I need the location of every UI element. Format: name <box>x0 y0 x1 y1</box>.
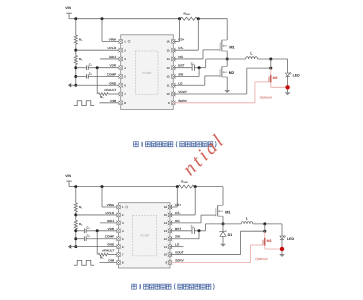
junction LED return (red, fig1) <box>285 85 289 89</box>
svg-text:UVLO: UVLO <box>107 46 116 50</box>
transistor M3 shunt (fig2) <box>251 238 272 246</box>
wire GND (fig2) <box>76 246 119 248</box>
svg-text:13: 13 <box>166 66 170 70</box>
svg-text:M1: M1 <box>229 45 234 49</box>
wire UVLO (fig2) <box>76 214 119 216</box>
wire IADJ stub (fig1) <box>100 58 121 60</box>
svg-text:IADJ: IADJ <box>109 55 116 59</box>
wire M3 drain branch (fig1) <box>270 59 272 75</box>
svg-text:GND: GND <box>107 243 115 247</box>
wire DIM (fig1) <box>100 102 121 104</box>
U1 pin 1 (VINA) pad <box>109 37 127 43</box>
junction C2 rail (fig2) <box>74 237 77 240</box>
wire M1 source to SW node (fig2) <box>222 216 224 224</box>
svg-text:C1: C1 <box>87 226 90 231</box>
svg-text:10: 10 <box>164 253 168 257</box>
svg-text:12: 12 <box>164 237 168 241</box>
U2 pin 3 (IADJ) pad <box>107 219 124 225</box>
svg-text:SW: SW <box>175 235 180 239</box>
svg-text:10: 10 <box>166 92 170 96</box>
svg-text:16: 16 <box>164 205 168 209</box>
transistor M1 (fig2) <box>201 205 230 216</box>
U1 pin 6 (GND) pad <box>109 81 126 87</box>
svg-text:15: 15 <box>166 48 170 52</box>
U1 pin 7 (nFAULT) pad <box>104 88 126 97</box>
inductor L (fig1) <box>246 51 258 59</box>
wire CS+ (fig1) <box>173 19 179 42</box>
svg-text:VINA: VINA <box>107 203 115 207</box>
junction C1 rail (fig2) <box>74 229 77 232</box>
svg-text:DIM: DIM <box>110 99 116 103</box>
svg-text:HG: HG <box>175 219 180 223</box>
svg-text:M2: M2 <box>229 71 234 75</box>
wire input rail (fig2) <box>75 187 77 247</box>
svg-text:VINA: VINA <box>109 37 117 41</box>
svg-text:CS-: CS- <box>175 211 180 215</box>
U2 pin 14 (HG) pad <box>164 219 180 225</box>
svg-text:VDR: VDR <box>110 64 117 68</box>
wire M1 drain (fig2) <box>222 187 224 206</box>
svg-text:VOUT: VOUT <box>178 90 187 94</box>
svg-text:PGND: PGND <box>142 71 152 75</box>
svg-text:HG: HG <box>178 55 183 59</box>
wire R3 pullup vertical (fig1) <box>96 68 98 94</box>
svg-text:DIM: DIM <box>108 259 114 263</box>
wire LED return to ground (fig1) <box>287 90 289 93</box>
svg-text:16: 16 <box>166 40 170 44</box>
wire LED anode (fig2) <box>281 224 283 236</box>
svg-text:Optional: Optional <box>260 96 273 100</box>
resistor RSNS (fig1) <box>181 12 197 21</box>
junction L output (fig1) <box>269 58 272 61</box>
U2 pin 8 (DIM) pad <box>108 259 124 265</box>
U1 pin 5 (COMP) pad <box>107 72 126 78</box>
wire M2 source to ground (fig1) <box>226 77 228 90</box>
U1 pin 14 (HG) pad <box>166 55 183 61</box>
svg-text:R1: R1 <box>79 37 83 42</box>
junction BST/SW (fig1) <box>198 66 201 69</box>
junction SW node (fig1) <box>226 58 229 61</box>
svg-text:15: 15 <box>164 213 168 217</box>
wire BST to SW net (fig2) <box>194 224 206 231</box>
svg-text:LED: LED <box>293 74 300 78</box>
svg-text:IADJ: IADJ <box>107 219 114 223</box>
resistor R1 (fig1) <box>74 35 83 44</box>
node VIN (fig1) <box>65 6 76 19</box>
junction L output (fig2) <box>263 222 266 225</box>
wire VIN bus (fig1) <box>76 18 227 20</box>
resistor RSNS (fig2) <box>179 179 195 188</box>
ground (left, fig1) <box>68 83 76 87</box>
wire R3 pullup vertical (fig2) <box>96 231 98 255</box>
wire CS- (fig1) <box>173 19 198 50</box>
junction UVLO divider (fig2) <box>74 213 77 216</box>
svg-text:13: 13 <box>164 229 168 233</box>
U2 pin 15 (CS-) pad <box>164 211 181 217</box>
junction GND rail (fig1) <box>74 84 77 87</box>
svg-text:UVLO: UVLO <box>105 211 114 215</box>
wire LED cathode (fig2) <box>281 240 283 249</box>
U1 pin 16 (CS+) pad <box>166 37 184 43</box>
U1 pin 4 (VDR) pad <box>110 64 127 70</box>
svg-text:LED: LED <box>287 237 294 241</box>
U1 pin 8 (DIM) pad <box>110 99 126 105</box>
svg-text:R2: R2 <box>79 57 83 62</box>
U2 pin 4 (VDR) pad <box>108 227 124 233</box>
wire nFAULT (fig2) <box>108 254 118 256</box>
svg-text:14: 14 <box>166 57 170 61</box>
junction VINA tap (fig1) <box>101 17 104 20</box>
svg-text:COMP: COMP <box>107 72 116 76</box>
junction LED return (red, fig2) <box>280 247 284 251</box>
transistor M2 (fig1) <box>205 59 234 77</box>
svg-text:CS+: CS+ <box>175 203 181 207</box>
U2 pin 10 (VOUT) pad <box>164 251 184 257</box>
junction SW node (fig2) <box>222 222 225 225</box>
resistor R3 (fig1) <box>98 93 108 100</box>
svg-text:BST: BST <box>178 64 184 68</box>
wire D1 anode to ground (fig2) <box>222 236 224 243</box>
svg-text:BST: BST <box>175 227 181 231</box>
U1 pin 12 (SW) pad <box>166 72 183 78</box>
wire LED return to ground (fig2) <box>281 251 283 254</box>
U2 pin 7 (nFAULT) pad <box>102 248 124 257</box>
svg-text:11: 11 <box>164 245 167 249</box>
wire UVLO (fig1) <box>76 49 121 51</box>
wire VOUT (fig1) <box>173 68 270 94</box>
wire HG gate (fig1) <box>173 50 203 59</box>
svg-text:SW: SW <box>178 72 183 76</box>
junction VDR / R3 pullup (fig1) <box>96 66 99 69</box>
wire COMP (fig1) <box>89 75 121 77</box>
svg-text:L: L <box>246 216 249 220</box>
resistor R1 (fig2) <box>74 203 83 212</box>
svg-text:C2: C2 <box>89 71 92 76</box>
U1 pin 3 (IADJ) pad <box>109 55 126 61</box>
U1 pin 10 (VOUT) pad <box>166 90 187 96</box>
caption figure 2 (图2 应用原理图 异步整流架构) <box>132 284 214 290</box>
wire GND (fig1) <box>76 84 121 86</box>
wire VOUT (fig2) <box>170 231 265 254</box>
wire DIM (fig2) <box>100 262 119 264</box>
svg-text:RSNS: RSNS <box>181 179 188 184</box>
svg-text:C2: C2 <box>87 234 90 239</box>
svg-text:LG: LG <box>178 81 183 85</box>
junction RSNS left / CS+ (fig1) <box>178 17 181 20</box>
svg-text:ntial: ntial <box>179 129 230 180</box>
wire nFAULT (fig1) <box>108 93 120 95</box>
wire M3 drain branch (fig2) <box>264 224 266 238</box>
wire M3 source to LED return (fig2) <box>265 245 282 249</box>
wire LED cathode (fig1) <box>287 77 289 88</box>
U2 pin 13 (BST) pad <box>164 227 181 233</box>
LED (fig2) <box>280 235 295 241</box>
wire M1 source to SW node (fig1) <box>226 51 228 59</box>
junction RSNS left / CS+ (fig2) <box>176 185 179 188</box>
svg-text:R3: R3 <box>100 95 104 100</box>
wire M1 drain (fig1) <box>226 19 228 40</box>
junction VIN rail (fig2) <box>74 185 77 188</box>
svg-text:M1: M1 <box>225 211 230 215</box>
wire IADJ stub (fig2) <box>100 222 119 224</box>
capacitor C3 (fig2) <box>170 224 194 234</box>
U1 pin 11 (LG) pad <box>167 81 183 87</box>
PWM dimming signal icon (fig1) <box>74 101 94 106</box>
ground (left, fig2) <box>68 244 76 248</box>
U2 pin 1 (VINA) pad <box>107 203 124 209</box>
junction RSNS right / CS- (fig1) <box>197 17 200 20</box>
svg-text:C3: C3 <box>191 224 194 229</box>
svg-text:C3: C3 <box>191 61 194 66</box>
ground LED (fig1) <box>285 92 291 95</box>
diode D1 schottky (fig2) <box>220 224 232 237</box>
junction C1 rail (fig1) <box>74 66 77 69</box>
U2 pin 2 (UVLO) pad <box>105 211 124 217</box>
wire CS+ (fig2) <box>170 187 177 207</box>
wire VIN bus (fig2) <box>76 186 223 188</box>
capacitor C3 (fig1) <box>173 61 194 71</box>
resistor R2 (fig1) <box>74 55 83 64</box>
transistor M3 shunt (fig1) <box>255 75 278 83</box>
svg-text:R1: R1 <box>79 205 83 210</box>
svg-text:RSNS: RSNS <box>184 12 191 17</box>
IC U2 body <box>119 203 171 268</box>
resistor R2 (fig2) <box>74 220 83 229</box>
svg-text:CS-: CS- <box>178 46 183 50</box>
U2 pin 6 (GND) pad <box>107 243 124 249</box>
U2 pin 16 (CS+) pad <box>164 203 181 209</box>
U2 pin 5 (COMP) pad <box>105 235 124 241</box>
wire SDRV to M3 gate (fig1) <box>173 82 255 103</box>
svg-text:SDRV: SDRV <box>178 99 188 103</box>
svg-text:R3: R3 <box>100 255 104 260</box>
svg-text:R2: R2 <box>79 222 83 227</box>
U2 pin 9 (SDRV) pad <box>165 259 184 265</box>
wire LG gate (fig1) <box>173 76 205 85</box>
wire input rail (fig1) <box>75 19 77 86</box>
ground D1 (fig2) <box>220 244 226 247</box>
wire VDR (fig1) <box>89 67 121 69</box>
wire LED anode (fig1) <box>287 59 289 73</box>
svg-text:M3: M3 <box>273 76 278 80</box>
svg-text:SDRV: SDRV <box>175 259 185 263</box>
junction VIN rail (fig1) <box>74 17 77 20</box>
svg-text:nFAULT: nFAULT <box>102 248 114 252</box>
IC U1 body <box>121 35 174 110</box>
svg-text:Optional: Optional <box>255 257 268 261</box>
wire VINA (fig2) <box>102 187 119 207</box>
capacitor C2 (fig2) <box>76 234 90 242</box>
wire CS- (fig2) <box>170 187 195 215</box>
svg-text:PGND: PGND <box>140 234 150 238</box>
svg-text:COMP: COMP <box>105 235 114 239</box>
U1 pin 2 (UVLO) pad <box>107 46 126 52</box>
junction C2 rail (fig1) <box>74 75 77 78</box>
junction VOUT / M3 drain (fig2) <box>263 230 266 233</box>
capacitor C1 (fig2) <box>76 226 90 234</box>
svg-text:M3: M3 <box>267 239 272 243</box>
caption figure 1 (图1 应用原理图 同步整流架构) <box>134 141 216 147</box>
svg-text:VIN: VIN <box>65 6 71 10</box>
wire SDRV to M3 gate (fig2) <box>170 245 251 263</box>
U2 pin 12 (SW) pad <box>164 235 180 241</box>
ground LED (fig2) <box>279 254 285 257</box>
node VIN (fig2) <box>65 174 76 187</box>
junction UVLO divider (fig1) <box>74 49 77 52</box>
junction RSNS right / CS- (fig2) <box>194 185 197 188</box>
junction BST/SW (fig2) <box>198 229 201 232</box>
junction VINA tap (fig2) <box>101 185 104 188</box>
PWM dimming signal icon (fig2) <box>74 260 94 265</box>
inductor L (fig2) <box>241 216 253 224</box>
wire SW node line (fig2) <box>206 223 283 225</box>
wire VINA (fig1) <box>102 19 121 42</box>
resistor R3 (fig2) <box>98 253 108 260</box>
capacitor C2 (fig1) <box>76 71 92 79</box>
svg-text:VDR: VDR <box>108 227 115 231</box>
U1 pin 9 (SDRV) pad <box>168 99 188 105</box>
svg-text:C1: C1 <box>89 63 92 68</box>
svg-text:L: L <box>250 51 253 55</box>
wire COMP (fig2) <box>86 238 118 240</box>
svg-text:11: 11 <box>167 83 170 87</box>
svg-text:12: 12 <box>166 75 170 79</box>
svg-text:GND: GND <box>109 81 117 85</box>
capacitor C1 (fig1) <box>76 63 92 71</box>
U2 pin 11 (LG) pad <box>164 243 180 249</box>
wire LG stub (fig2) <box>170 246 184 248</box>
wire SW (fig1) <box>173 68 199 77</box>
wire M3 source to LED return (fig1) <box>271 82 288 87</box>
svg-text:VOUT: VOUT <box>175 251 184 255</box>
transistor M1 (fig1) <box>203 40 235 51</box>
wire SW node line (fig1) <box>206 58 288 60</box>
svg-text:nFAULT: nFAULT <box>104 88 116 92</box>
U1 pin 13 (BST) pad <box>166 64 184 70</box>
LED (fig1) <box>286 72 301 78</box>
junction GND rail (fig2) <box>74 245 77 248</box>
svg-text:LG: LG <box>175 243 180 247</box>
svg-text:14: 14 <box>164 221 168 225</box>
svg-text:VIN: VIN <box>65 174 71 178</box>
junction VDR / R3 pullup (fig2) <box>96 229 99 232</box>
ground M2 (fig1) <box>224 90 230 93</box>
wire VDR (fig2) <box>86 230 118 232</box>
svg-text:D1: D1 <box>228 233 233 237</box>
wire HG gate (fig2) <box>170 215 201 223</box>
U1 pin 15 (CS-) pad <box>166 46 183 52</box>
wire SW (fig2) <box>170 231 199 239</box>
wire BST to SW net (fig1) <box>194 59 206 68</box>
junction VOUT / M3 drain (fig1) <box>269 67 272 70</box>
